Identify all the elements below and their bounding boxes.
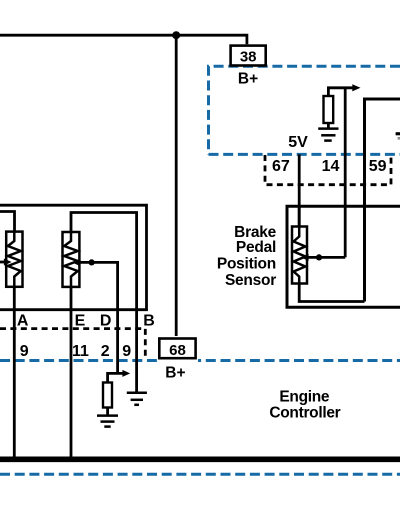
svg-text:59: 59 [369, 158, 387, 175]
connector C1 (black dashed) around pins 9/11/2/9 [0, 329, 145, 358]
wire: pot P2 top link over to pin B / 9 and down to ground [71, 213, 137, 393]
Engine Controller boundary, bottom edge [0, 473, 400, 476]
wire: pin 67 5V supply [298, 154, 301, 228]
svg-text:Position: Position [217, 255, 276, 272]
svg-text:B: B [143, 313, 155, 330]
resistor R3 (inside EC) [103, 383, 112, 408]
wire: sensor low-side lead to pin 59 line [299, 283, 364, 302]
svg-text:Controller: Controller [269, 405, 340, 422]
svg-text:5V: 5V [288, 134, 308, 151]
connector C2 (black dashed) around pins 67/14/59 [265, 155, 391, 185]
svg-text:68: 68 [169, 342, 186, 359]
Engine Controller boundary (blue dashed) top edge + left edge [209, 66, 400, 154]
svg-text:14: 14 [322, 158, 340, 175]
adjacent circuit box (top right, cut off) [365, 99, 400, 302]
potentiometer P2 [63, 232, 80, 287]
svg-text:E: E [75, 313, 86, 330]
svg-text:B+: B+ [238, 70, 258, 87]
svg-text:2: 2 [101, 343, 110, 360]
potentiometer P1 [6, 232, 22, 287]
wire: pot P1 top link (cut off at left) [0, 212, 15, 232]
wire: sensor 5V lead [298, 206, 301, 228]
svg-text:A: A [17, 313, 29, 330]
node: junction on B+ bus [172, 31, 180, 39]
ground under R1 [318, 129, 338, 141]
resistor R1 pull-down with arrow (inside EC) [328, 88, 352, 96]
svg-text:Sensor: Sensor [225, 272, 276, 289]
wire: P2 low side down to ground bus (pin E / 11) [70, 287, 73, 459]
wire: B+ bus (top horizontal) with drop to terminal 38 [0, 35, 247, 44]
potentiometer (brake pedal position sensor) [292, 227, 307, 284]
adjacent circuit fragment (cut off at right edge) [396, 132, 400, 135]
Brake Pedal Position Sensor enclosure [287, 206, 400, 307]
Engine Controller boundary, lower connector edge [0, 359, 400, 362]
svg-text:B+: B+ [165, 365, 185, 382]
wire: B+ bus down to terminal 68 [175, 35, 178, 339]
terminal 68 box [157, 336, 198, 363]
svg-text:9: 9 [122, 343, 131, 360]
wire: P1 low side down to ground bus (pin A / 9) [13, 287, 16, 459]
svg-text:9: 9 [20, 343, 29, 360]
wiper of P1 (from left, cut off) [0, 261, 4, 264]
svg-text:11: 11 [72, 343, 89, 360]
wire + arrow: pin 2 signal branch [108, 373, 123, 382]
svg-text:67: 67 [272, 158, 290, 175]
Engine Controller boundary, upper connector edge [209, 153, 400, 156]
ground under R3 [97, 416, 118, 427]
ground bus (thick) inside EC [0, 456, 400, 462]
terminal 38 box [231, 46, 266, 66]
ground at pin B / 9 [127, 393, 147, 405]
left sensor enclosure (cut off at left edge) [0, 205, 147, 310]
wiper of sensor potentiometer [308, 256, 345, 259]
wire: pin 14 signal [344, 88, 347, 258]
svg-text:Pedal: Pedal [236, 239, 276, 256]
svg-text:D: D [100, 313, 112, 330]
svg-text:Engine: Engine [279, 389, 330, 406]
svg-text:38: 38 [240, 49, 257, 66]
wiper of P2 to pin D / 2 [79, 262, 117, 373]
